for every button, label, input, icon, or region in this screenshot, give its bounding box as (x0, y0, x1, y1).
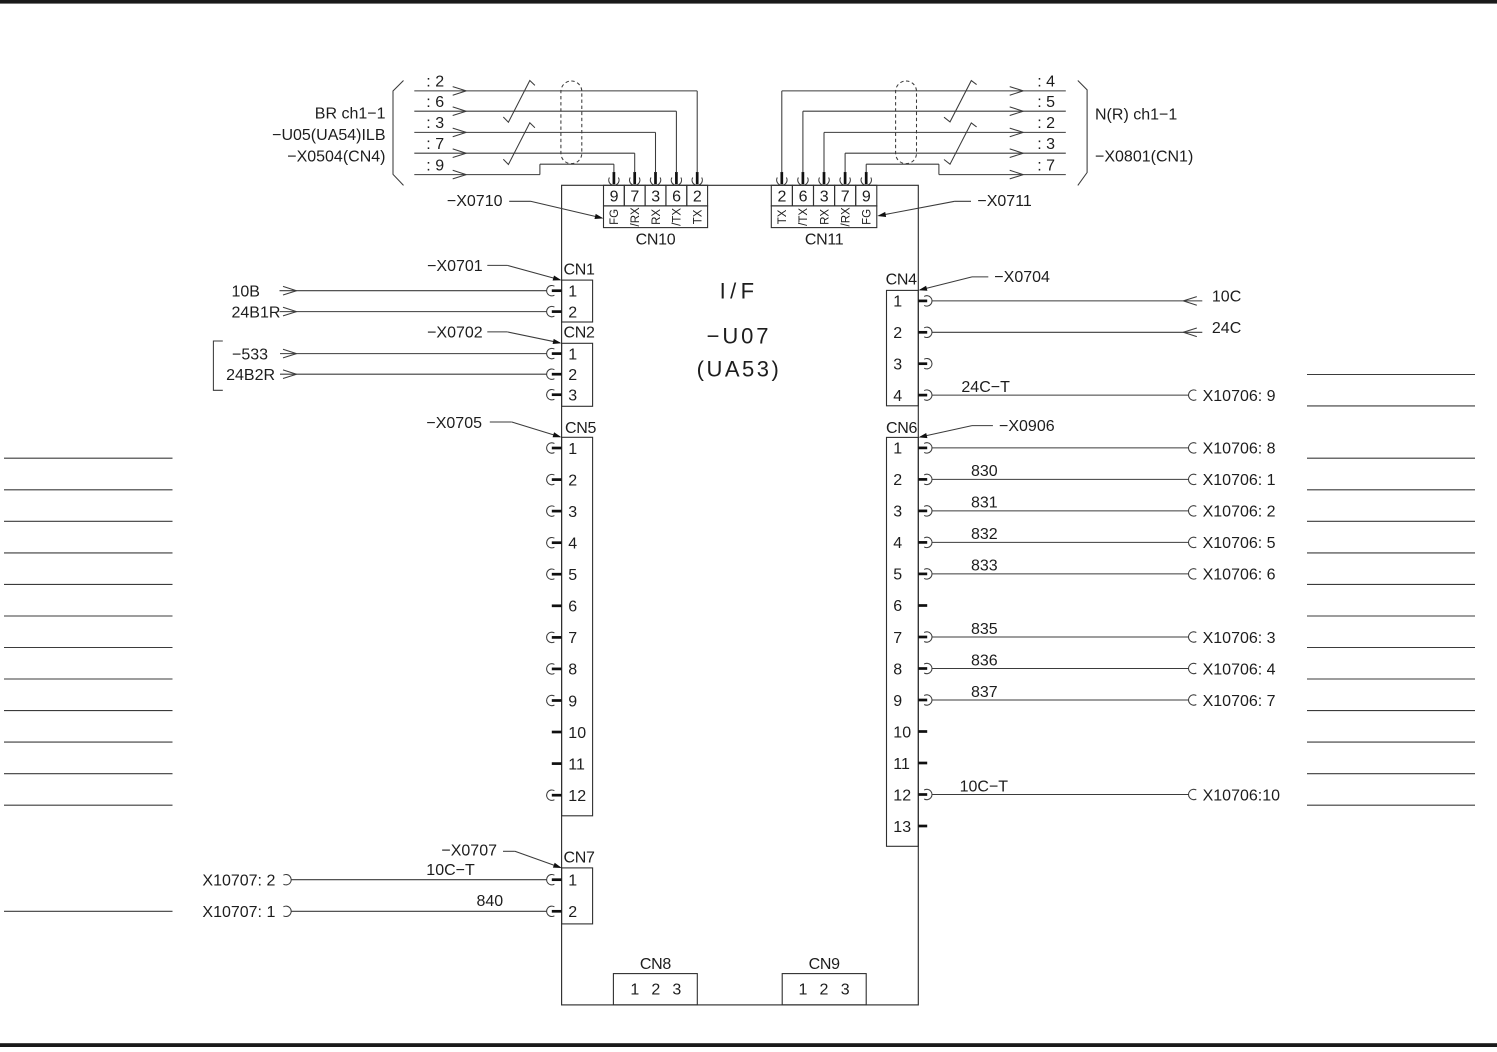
svg-text:: 9: : 9 (426, 157, 444, 174)
svg-text:3: 3 (568, 504, 577, 521)
svg-text:X10706: 8: X10706: 8 (1203, 441, 1276, 458)
svg-text:2: 2 (568, 472, 577, 489)
svg-text:10: 10 (568, 725, 586, 742)
svg-text:1: 1 (568, 441, 577, 458)
svg-text:7: 7 (841, 189, 850, 206)
svg-text:10: 10 (893, 724, 911, 741)
svg-text:−X0504(CN4): −X0504(CN4) (287, 149, 385, 166)
svg-text:13: 13 (893, 819, 911, 836)
svg-text:2: 2 (568, 904, 577, 921)
svg-text:3: 3 (820, 189, 829, 206)
svg-text:−U07: −U07 (707, 324, 772, 349)
svg-text:X10706: 2: X10706: 2 (1203, 504, 1276, 521)
svg-text:10C−T: 10C−T (426, 862, 475, 879)
svg-text:TX: TX (777, 209, 789, 224)
svg-text:10B: 10B (232, 283, 260, 300)
svg-text:831: 831 (971, 495, 998, 512)
svg-text:N(R) ch1−1: N(R) ch1−1 (1095, 107, 1177, 124)
svg-text:5: 5 (568, 567, 577, 584)
svg-text:X10706: 4: X10706: 4 (1203, 661, 1276, 678)
svg-text:: 7: : 7 (1037, 157, 1055, 174)
svg-text:2: 2 (693, 189, 702, 206)
svg-text:8: 8 (893, 661, 902, 678)
svg-text:X10706: 3: X10706: 3 (1203, 630, 1276, 647)
svg-text:7: 7 (568, 630, 577, 647)
svg-text:3: 3 (893, 357, 902, 374)
svg-text:24C: 24C (1212, 320, 1241, 337)
svg-text:24B1R: 24B1R (232, 304, 281, 321)
svg-text:−X0702: −X0702 (427, 325, 483, 342)
svg-text:10C−T: 10C−T (960, 778, 1009, 795)
svg-text:24B2R: 24B2R (226, 367, 275, 384)
svg-text:CN8: CN8 (640, 956, 672, 973)
svg-text:RX: RX (819, 209, 831, 225)
svg-text:9: 9 (862, 189, 871, 206)
svg-text:CN6: CN6 (886, 420, 918, 437)
svg-text:X10707: 1: X10707: 1 (202, 904, 275, 921)
svg-text:1: 1 (893, 441, 902, 458)
svg-text:2: 2 (651, 982, 660, 999)
svg-text:−X0710: −X0710 (447, 193, 503, 210)
svg-text:: 2: : 2 (426, 74, 444, 91)
svg-text:−X0801(CN1): −X0801(CN1) (1095, 149, 1193, 166)
svg-text:: 3: : 3 (426, 115, 444, 132)
svg-text:3: 3 (893, 504, 902, 521)
svg-text:24C−T: 24C−T (961, 379, 1010, 396)
svg-text:X10706: 5: X10706: 5 (1203, 535, 1276, 552)
svg-text:−X0906: −X0906 (999, 418, 1055, 435)
svg-text:830: 830 (971, 463, 998, 480)
svg-text:X10706: 9: X10706: 9 (1203, 388, 1276, 405)
svg-text:−X0707: −X0707 (441, 842, 497, 859)
svg-text:9: 9 (610, 189, 619, 206)
svg-text:CN11: CN11 (805, 231, 844, 248)
svg-text:: 7: : 7 (426, 136, 444, 153)
svg-text:CN9: CN9 (809, 956, 841, 973)
svg-text:X10706: 7: X10706: 7 (1203, 693, 1276, 710)
svg-text:1: 1 (799, 982, 808, 999)
svg-text:−533: −533 (232, 346, 268, 363)
svg-text:(UA53): (UA53) (697, 356, 782, 381)
svg-text:2: 2 (777, 189, 786, 206)
svg-text:9: 9 (568, 693, 577, 710)
svg-text:: 2: : 2 (1037, 115, 1055, 132)
svg-text:2: 2 (568, 367, 577, 384)
svg-text:1: 1 (568, 284, 577, 301)
svg-text:−X0705: −X0705 (426, 415, 482, 432)
svg-text:840: 840 (477, 893, 504, 910)
svg-text:: 5: : 5 (1037, 94, 1055, 111)
svg-text:1: 1 (893, 294, 902, 311)
svg-text:X10706:10: X10706:10 (1203, 787, 1281, 804)
svg-text:4: 4 (568, 536, 577, 553)
svg-text:−X0701: −X0701 (427, 258, 483, 275)
svg-text:2: 2 (893, 472, 902, 489)
svg-text:3: 3 (651, 189, 660, 206)
svg-text:/TX: /TX (798, 208, 810, 226)
svg-text:837: 837 (971, 684, 998, 701)
svg-text:: 3: : 3 (1037, 136, 1055, 153)
svg-text:CN4: CN4 (886, 272, 918, 289)
svg-text:: 4: : 4 (1037, 74, 1055, 91)
svg-text:FG: FG (609, 209, 621, 225)
svg-text:4: 4 (893, 535, 902, 552)
svg-text:: 6: : 6 (426, 94, 444, 111)
svg-text:6: 6 (799, 189, 808, 206)
svg-text:6: 6 (672, 189, 681, 206)
svg-text:X10707: 2: X10707: 2 (202, 873, 275, 890)
svg-text:2: 2 (568, 304, 577, 321)
svg-text:RX: RX (651, 209, 663, 225)
svg-text:12: 12 (568, 788, 586, 805)
svg-text:−X0704: −X0704 (994, 269, 1050, 286)
svg-text:7: 7 (630, 189, 639, 206)
svg-text:3: 3 (672, 982, 681, 999)
svg-text:4: 4 (893, 388, 902, 405)
svg-text:/RX: /RX (840, 207, 852, 227)
svg-text:833: 833 (971, 558, 998, 575)
svg-text:CN10: CN10 (636, 231, 676, 248)
svg-text:6: 6 (893, 598, 902, 615)
svg-text:TX: TX (693, 209, 705, 224)
svg-text:1: 1 (568, 873, 577, 890)
svg-text:CN2: CN2 (564, 325, 596, 342)
svg-text:832: 832 (971, 526, 998, 543)
svg-text:BR ch1−1: BR ch1−1 (315, 105, 386, 122)
svg-text:12: 12 (893, 787, 911, 804)
svg-text:11: 11 (893, 756, 910, 773)
svg-text:3: 3 (568, 388, 577, 405)
svg-text:/TX: /TX (672, 208, 684, 226)
svg-text:/RX: /RX (630, 207, 642, 227)
svg-text:−X0711: −X0711 (977, 193, 1032, 210)
svg-text:X10706: 6: X10706: 6 (1203, 567, 1276, 584)
svg-text:1: 1 (630, 982, 639, 999)
svg-text:7: 7 (893, 630, 902, 647)
svg-text:8: 8 (568, 662, 577, 679)
svg-text:11: 11 (568, 756, 585, 773)
svg-text:835: 835 (971, 621, 998, 638)
svg-text:CN7: CN7 (564, 849, 596, 866)
svg-text:I/F: I/F (720, 279, 759, 304)
svg-text:6: 6 (568, 599, 577, 616)
svg-text:−U05(UA54)ILB: −U05(UA54)ILB (272, 127, 385, 144)
svg-text:CN5: CN5 (565, 420, 597, 437)
svg-text:836: 836 (971, 652, 998, 669)
svg-text:2: 2 (893, 325, 902, 342)
svg-text:X10706: 1: X10706: 1 (1203, 472, 1276, 489)
svg-text:CN1: CN1 (564, 262, 596, 279)
svg-text:1: 1 (568, 346, 577, 363)
svg-text:3: 3 (841, 982, 850, 999)
svg-text:10C: 10C (1212, 288, 1241, 305)
svg-text:5: 5 (893, 567, 902, 584)
svg-text:9: 9 (893, 693, 902, 710)
svg-text:2: 2 (820, 982, 829, 999)
svg-text:FG: FG (862, 209, 874, 225)
